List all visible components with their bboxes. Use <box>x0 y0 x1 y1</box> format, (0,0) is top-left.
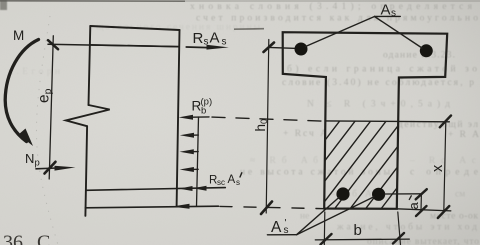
darker top-left corner smudge <box>0 0 7 10</box>
member break zigzag <box>66 105 110 126</box>
svg-text:A: A <box>210 30 220 47</box>
stray bleed dash <box>234 28 264 31</box>
web bottom extension line <box>397 209 451 211</box>
stress arrow 1 <box>192 116 209 118</box>
b right extension <box>398 212 401 245</box>
member A_s' level chord / R_sc line <box>86 188 225 191</box>
R_sc A_s' label <box>209 174 240 187</box>
b left tick <box>321 234 332 245</box>
A_s' leader to left dot <box>297 197 339 234</box>
svg-text:b: b <box>354 222 362 239</box>
svg-text:R: R <box>193 30 204 47</box>
a' leader from right dot <box>385 193 423 195</box>
h0 dimension line <box>266 40 269 214</box>
dark scan line top edge <box>0 0 185 2</box>
stress arrow 4 <box>192 168 198 170</box>
rebar dot A_s' left <box>336 187 349 200</box>
stress arrow 5 / R_sc A_s' arrowheads <box>179 186 193 191</box>
svg-text:s: s <box>236 178 240 187</box>
svg-text:описание вытекает, что: описание вытекает, что <box>367 237 479 245</box>
x bottom tick <box>438 206 450 218</box>
svg-text:p: p <box>35 158 40 169</box>
A_s' leader to right dot <box>297 197 374 235</box>
A_s label top <box>381 1 397 19</box>
svg-text:': ' <box>285 218 287 229</box>
svg-text:s: s <box>222 37 227 48</box>
stress arrow 2 <box>192 134 198 136</box>
b left extension <box>323 212 326 245</box>
svg-text:см: см <box>455 190 465 200</box>
R_s A_s force arrow <box>186 46 208 49</box>
hatching of compressed zone <box>257 121 464 210</box>
member left edge upper <box>89 26 91 105</box>
x top tick <box>440 116 451 128</box>
A_s level leader into section <box>269 47 298 48</box>
rebar dot A_s' right <box>372 188 385 201</box>
a' top tick <box>416 189 427 199</box>
svg-text:A: A <box>271 219 282 236</box>
h0 top tick <box>264 43 275 53</box>
svg-text:действующй эл: действующй эл <box>398 119 478 130</box>
stress arrow 6 (bottom) <box>172 204 190 209</box>
svg-text:M: M <box>13 28 24 43</box>
e_p top tick <box>48 40 58 49</box>
e_p extension line to member <box>48 44 179 46</box>
compressed zone NA line <box>326 120 449 123</box>
svg-text:s: s <box>391 8 396 19</box>
paper crease dotted <box>36 16 58 245</box>
h0 bottom tick <box>261 202 272 215</box>
member left edge lower <box>85 126 87 216</box>
dashed bottom face line to web <box>220 206 325 208</box>
rebar dot A_s right <box>420 44 433 57</box>
T-section outline <box>283 32 448 209</box>
svg-text:a: a <box>406 202 421 210</box>
member top edge <box>90 26 179 30</box>
svg-text:A: A <box>228 174 236 186</box>
moment arc M <box>5 40 38 142</box>
a' dimension line <box>420 194 422 211</box>
svg-text:sc: sc <box>217 178 225 187</box>
x dimension line <box>444 122 446 212</box>
svg-text:месте о-ок: месте о-ок <box>430 212 478 222</box>
A_s leader to left dot <box>306 17 375 47</box>
svg-text:+ R А: + R А <box>448 130 479 140</box>
member bottom chord <box>85 206 218 208</box>
A_s label underline <box>375 15 401 17</box>
N_p force arrow <box>36 167 57 170</box>
rebar dot A_s left <box>295 43 308 56</box>
svg-text:+ Rсч А: + Rсч А <box>283 129 327 139</box>
N_p label <box>25 151 40 169</box>
svg-text:одание п.3.23.: одание п.3.23. <box>383 51 455 61</box>
b right tick <box>393 233 404 244</box>
svg-text:x: x <box>430 164 446 172</box>
svg-text:не: не <box>300 212 309 222</box>
A_s' label underline <box>267 234 296 236</box>
member right edge <box>177 30 180 206</box>
R_b^(p) label <box>192 97 213 117</box>
dashed NA line to web <box>212 117 326 121</box>
N_p tick <box>45 162 56 174</box>
a' bottom tick <box>416 206 427 216</box>
svg-text:N: N <box>25 151 34 166</box>
R_s A_s label <box>193 30 227 48</box>
member A_s level chord <box>90 45 179 47</box>
stress arrow 3 <box>192 151 198 153</box>
svg-text:b: b <box>201 106 206 117</box>
stress block spine <box>197 117 199 206</box>
e_p dimension line <box>49 36 53 179</box>
A_s leader to right dot <box>375 17 423 49</box>
A_s' label bottom <box>271 218 289 236</box>
b dimension line <box>315 238 409 241</box>
moment arrowhead <box>19 129 34 147</box>
